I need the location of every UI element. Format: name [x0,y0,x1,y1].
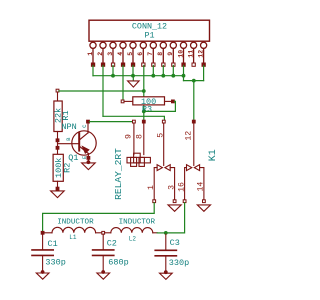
svg-text:P1: P1 [144,31,154,41]
svg-text:1: 1 [87,52,94,56]
connector P1 pin end squares [91,63,205,66]
relay K1 coil pin 8 [135,120,145,154]
wire pin5 drop [132,66,134,76]
svg-text:L2: L2 [129,236,137,243]
wire pin12 drop [203,66,205,81]
svg-text:K1: K1 [208,149,219,161]
wire L2 to C3 node [157,232,166,234]
relay K1 contact A pin 1 path [147,168,157,203]
svg-text:R1: R1 [61,110,71,120]
resistor R1 [54,89,71,142]
wire R3 right to coil net [144,101,176,111]
relay K1 contact B pin 16 path [177,168,186,203]
relay K1 contact A common pin 5 [156,120,165,165]
svg-text:6: 6 [137,52,144,56]
connector P1 pin numbers 1-12 [87,50,205,58]
svg-text:C1: C1 [48,239,58,249]
capacitor C3 [155,231,189,272]
svg-text:14: 14 [196,182,205,192]
ground under C3 [160,270,173,279]
svg-text:8: 8 [157,52,164,56]
wire jog y=80.6 [184,80,204,82]
wire collector to relay coil 9 [90,121,134,123]
wire pin1 drop [92,66,94,76]
junction dot R3/pin6 [142,110,146,114]
ground at emitter [82,160,96,169]
resistor R3 [121,97,174,115]
capacitor C2 [93,234,129,271]
svg-text:16: 16 [177,182,186,192]
svg-text:INDUCTOR: INDUCTOR [119,218,156,226]
wire relay pin1 to C1 node [43,203,155,232]
connector P1 pin stubs [93,49,204,64]
svg-text:R3: R3 [142,105,152,115]
svg-text:12: 12 [197,50,204,58]
transistor Q1 [58,120,97,163]
svg-text:C2: C2 [107,239,117,249]
wire pin3 drop [112,66,114,76]
relay K1 contact A pin 3 path to ground [168,168,182,212]
svg-text:11: 11 [187,50,194,58]
wire ground bus y=75.7 [93,75,184,77]
resistor R2 [53,142,72,191]
inductor L2 [102,218,157,242]
svg-text:5: 5 [156,133,165,138]
svg-text:RELAY_2RT: RELAY_2RT [113,148,124,200]
capacitor C1 [32,234,66,271]
svg-text:1: 1 [147,185,156,190]
ground under R2 [51,191,65,198]
relay K1 coil [127,153,150,166]
wire pin2 vertical [102,66,104,117]
wire pin8 drop [162,66,164,76]
connector P1 body [89,20,210,41]
svg-text:B: B [65,137,72,141]
inductor L1 [41,218,102,241]
relay K1 contact A triangles [157,165,170,171]
wire pin6 vertical to relay coil 8 [143,66,145,120]
svg-text:680p: 680p [108,258,128,268]
wire pin7 drop [152,66,154,76]
wire pin4 drop to R3 [122,66,124,100]
svg-text:9: 9 [167,52,174,56]
junction dot R1/pin6 [142,89,146,93]
svg-text:3: 3 [168,185,177,190]
svg-text:INDUCTOR: INDUCTOR [57,218,94,226]
svg-text:Q1: Q1 [68,153,78,163]
ground symbol under bus [128,76,140,87]
svg-text:4: 4 [117,52,124,56]
wire R1 top to pin6 vertical [59,90,144,92]
wire pin9 drop [172,66,174,76]
junction dots on ground bus [111,74,196,83]
wire pin2 horizontal to relay common 5 [103,116,164,119]
relay K1 contact B common pin 12 [185,120,196,165]
relay K1 contact B pin 14 path to ground [196,168,210,212]
svg-text:C3: C3 [170,238,180,248]
svg-text:330p: 330p [169,258,189,268]
svg-text:NPN: NPN [61,122,76,132]
svg-text:7: 7 [147,52,154,56]
wire to relay pin12 common [193,81,195,120]
svg-text:L1: L1 [69,234,77,241]
svg-text:10: 10 [177,50,184,58]
ground under C1 [36,270,49,279]
ground under C2 [97,270,110,279]
svg-text:2: 2 [97,52,104,56]
relay K1 contact B triangles [187,165,200,171]
svg-text:12: 12 [185,131,194,141]
svg-text:3: 3 [107,52,114,56]
svg-text:R2: R2 [62,163,72,173]
svg-text:C: C [81,124,88,128]
svg-text:8: 8 [135,134,144,139]
relay K1 coil pin 9 [125,120,136,154]
svg-text:5: 5 [127,52,134,56]
svg-text:330p: 330p [45,258,65,268]
wire pin10 drop to jog [183,66,185,81]
wire relay pin16 to C3 node [166,203,185,233]
connector P1 pin circles [90,42,207,48]
svg-text:9: 9 [125,134,134,139]
